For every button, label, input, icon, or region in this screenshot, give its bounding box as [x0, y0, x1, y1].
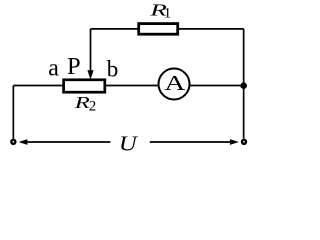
- resistor R1: [139, 24, 178, 35]
- label a: [48, 56, 59, 82]
- svg-text:A: A: [164, 72, 186, 95]
- svg-text:U: U: [119, 132, 138, 155]
- svg-text:a: a: [48, 56, 59, 82]
- potentiometer R2 body: [64, 80, 105, 92]
- wire: ammeter to right vertical: [190, 85, 244, 87]
- label b: [107, 57, 119, 82]
- svg-text:P: P: [67, 53, 81, 80]
- terminal left: [11, 140, 15, 144]
- svg-text:R: R: [74, 93, 90, 112]
- junction node: [240, 82, 247, 89]
- wire: right lead of R2 to ammeter: [106, 85, 160, 87]
- svg-text:b: b: [107, 57, 119, 82]
- label R1: [149, 0, 171, 21]
- label U: [119, 132, 138, 155]
- wire: top horizontal from wiper corner to right vertical: [91, 28, 244, 30]
- wire: left vertical: [12, 86, 14, 139]
- voltage arrow left (U dimension): [19, 139, 111, 145]
- wire: wiper vertical drop from top wire: [90, 29, 92, 72]
- label R2: [74, 93, 97, 115]
- wire: right vertical: [243, 29, 245, 139]
- ammeter A: [159, 69, 190, 100]
- wire: left lead of R2: [13, 85, 63, 87]
- terminal right: [242, 140, 246, 144]
- label P: [67, 53, 81, 80]
- svg-text:2: 2: [89, 99, 97, 115]
- wiper arrow of potentiometer: [87, 70, 93, 79]
- svg-text:1: 1: [164, 5, 172, 21]
- voltage arrow right (U dimension): [150, 139, 239, 145]
